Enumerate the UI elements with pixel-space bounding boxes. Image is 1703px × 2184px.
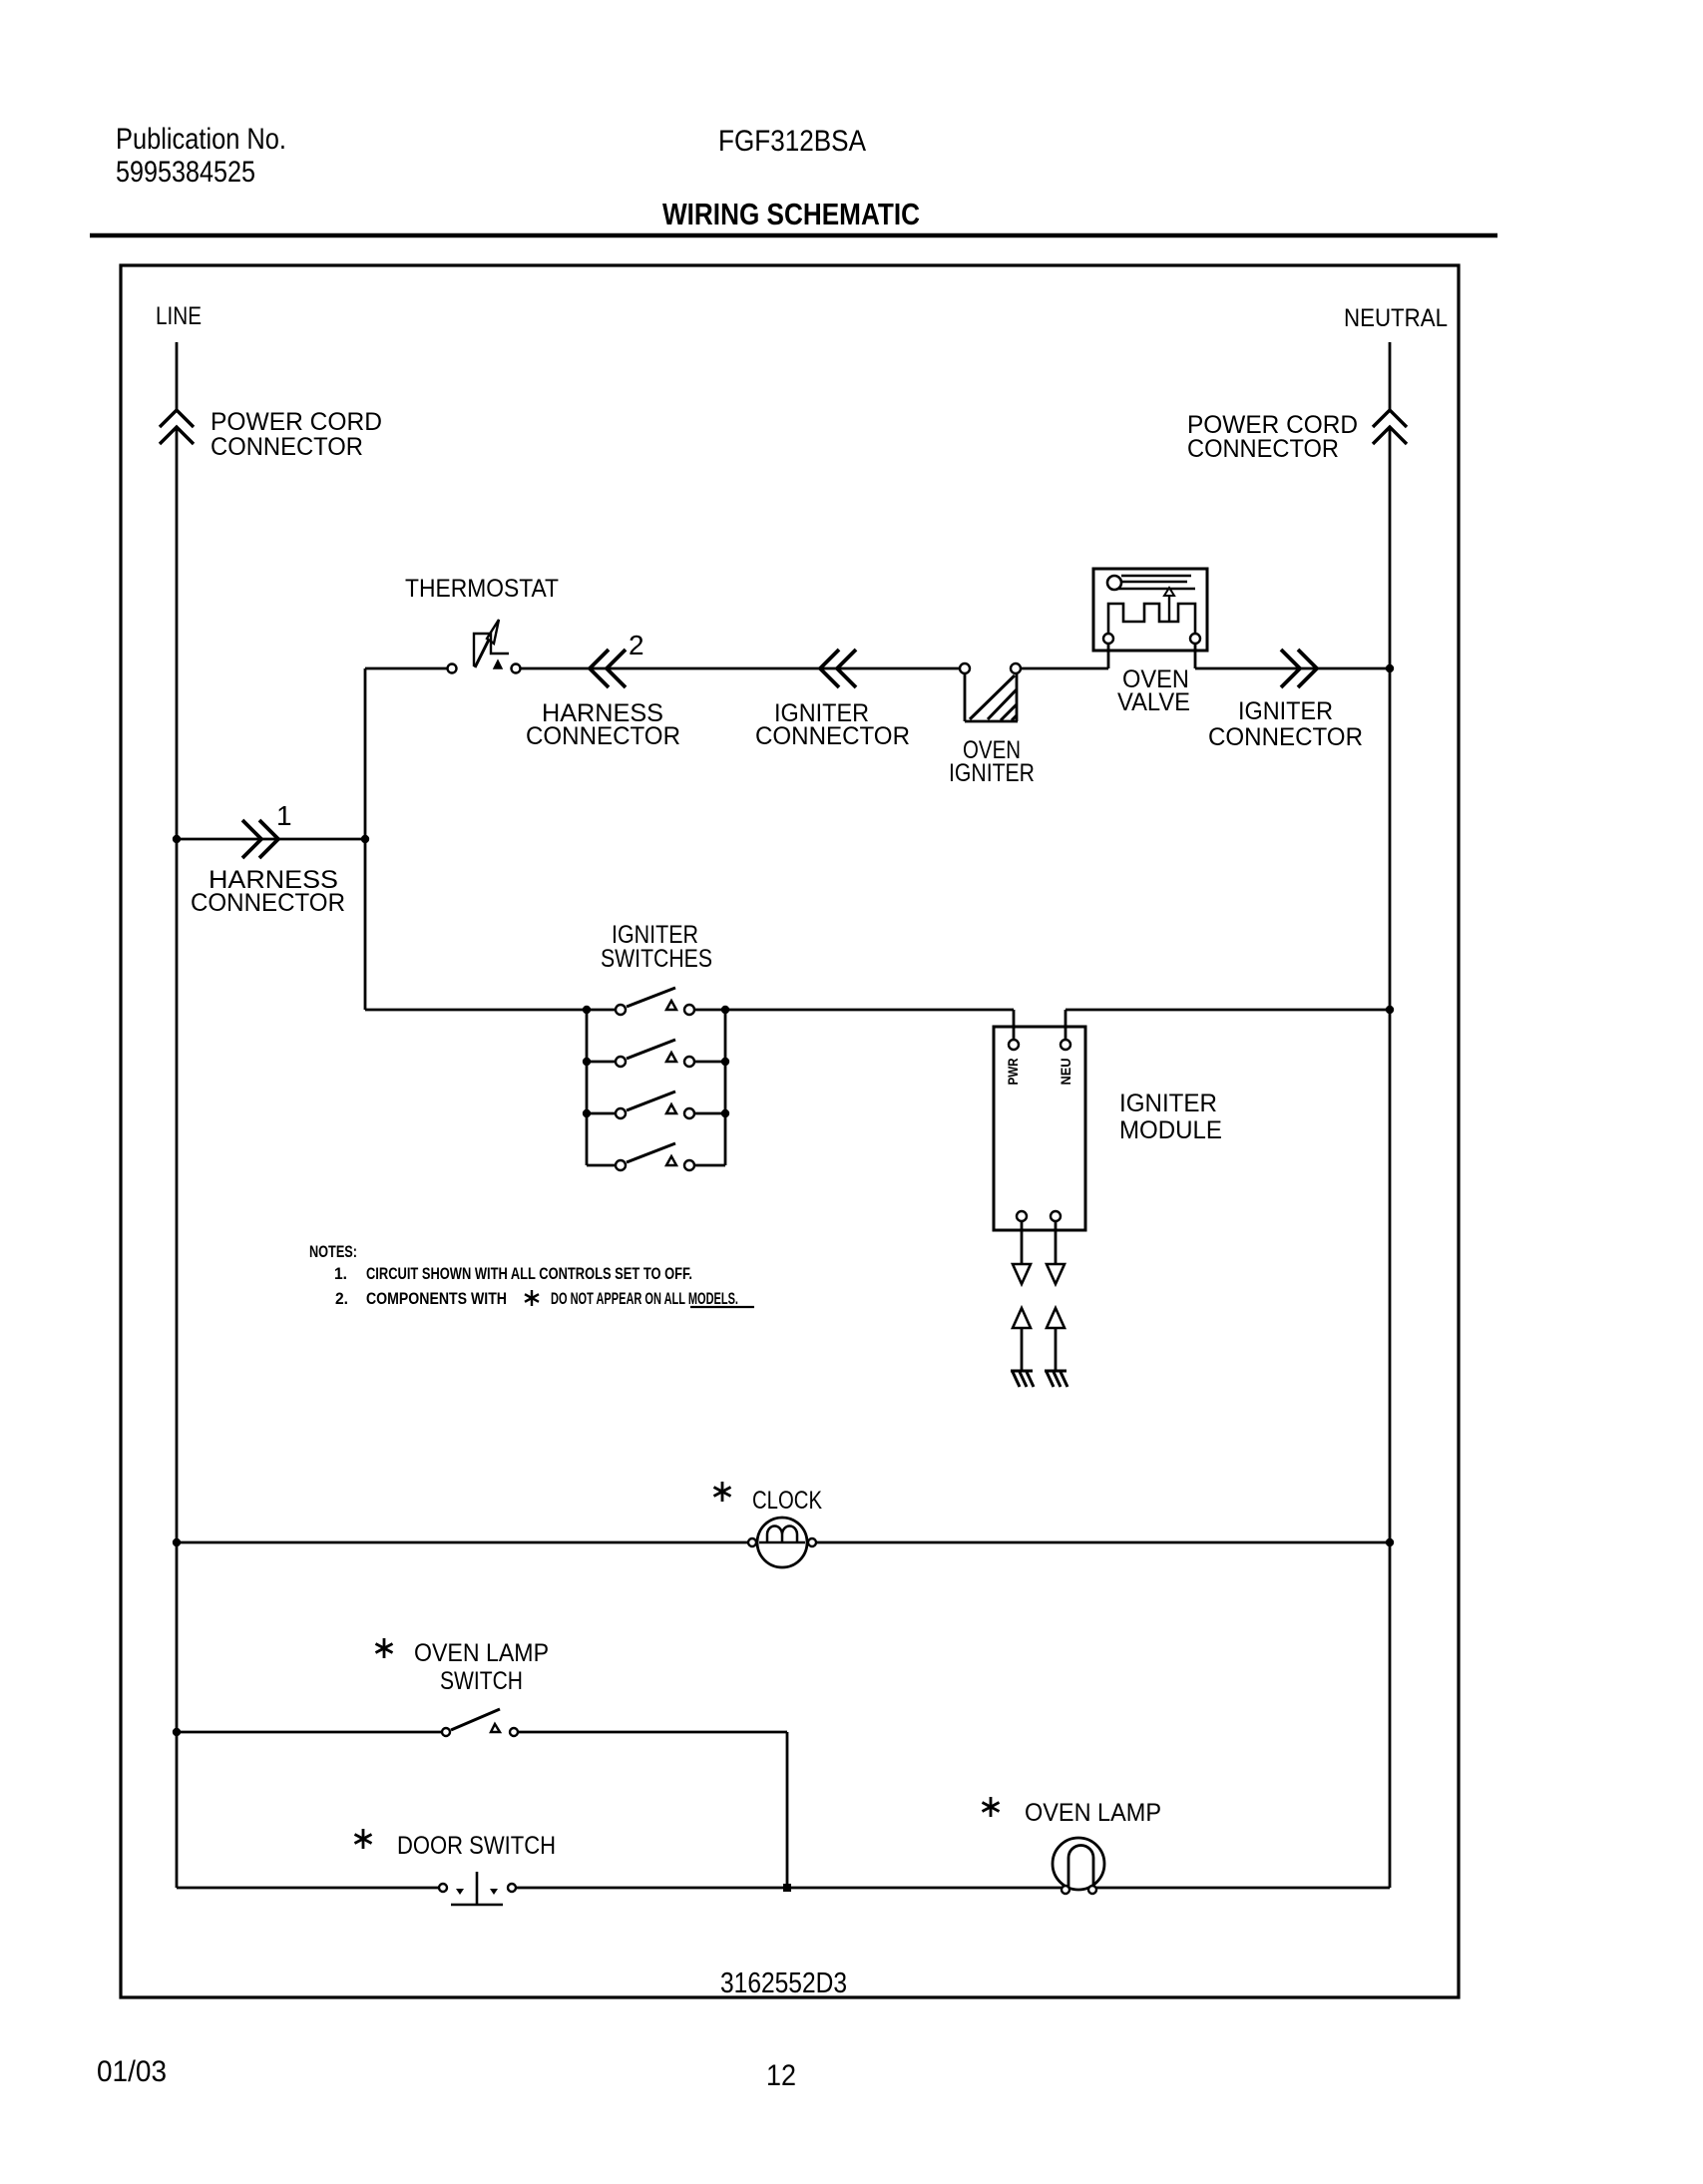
svg-text:CIRCUIT SHOWN WITH ALL CONTROL: CIRCUIT SHOWN WITH ALL CONTROLS SET TO O…: [366, 1264, 692, 1283]
junction square door row / lamp circuit: [783, 1884, 791, 1892]
svg-text:LINE: LINE: [156, 302, 202, 330]
svg-text:1.: 1.: [334, 1264, 347, 1283]
igniter switch 1: [587, 1009, 616, 1012]
thermostat switch: [448, 664, 457, 673]
svg-text:CLOCK: CLOCK: [752, 1487, 822, 1515]
svg-text:CONNECTOR: CONNECTOR: [191, 889, 345, 917]
igniter connector chevrons (right): [1281, 650, 1300, 687]
wire module NEU to neutral: [1064, 1010, 1067, 1040]
wire thermostat to oven igniter: [520, 667, 960, 670]
wire oven igniter to valve: [1021, 667, 1108, 670]
oven lamp asterisk: [983, 1797, 1000, 1817]
wire clock row right: [816, 1541, 1390, 1544]
svg-text:VALVE: VALVE: [1117, 688, 1190, 716]
svg-text:3162552D3: 3162552D3: [720, 1967, 847, 1999]
svg-text:CONNECTOR: CONNECTOR: [211, 433, 363, 461]
svg-text:NEU: NEU: [1058, 1059, 1073, 1086]
svg-text:WIRING SCHEMATIC: WIRING SCHEMATIC: [662, 197, 920, 231]
svg-text:2: 2: [629, 630, 644, 660]
burner ground electrodes: [1011, 1370, 1033, 1373]
junction dot line / lamp switch row: [173, 1728, 181, 1736]
junction dot module row / neutral: [1386, 1006, 1394, 1014]
svg-text:CONNECTOR: CONNECTOR: [1208, 723, 1363, 751]
oven lamp switch asterisk: [376, 1638, 393, 1658]
wire vertical from thermostat row to igniter switches: [364, 668, 367, 1010]
igniter module bottom terminals: [1017, 1211, 1027, 1221]
igniter connector chevrons (left): [820, 650, 839, 687]
harness connector 2 chevrons: [590, 650, 609, 687]
svg-text:FGF312BSA: FGF312BSA: [718, 125, 866, 158]
oven valve body: [1093, 569, 1207, 651]
svg-text:2.: 2.: [335, 1289, 348, 1308]
svg-text:5995384525: 5995384525: [116, 156, 255, 189]
clock asterisk: [714, 1482, 731, 1502]
svg-text:IGNITER: IGNITER: [949, 759, 1035, 787]
wire lamp switch row left: [177, 1731, 442, 1734]
oven valve leads: [1107, 644, 1110, 668]
svg-text:PWR: PWR: [1005, 1059, 1021, 1086]
oven valve terminals: [1103, 634, 1113, 644]
igniter module output leads: [1021, 1221, 1024, 1264]
oven valve capillary lines: [1121, 575, 1191, 577]
output arrows down: [1013, 1264, 1031, 1284]
junction dot clock row / neutral: [1386, 1538, 1394, 1546]
junction dots igniter switch rails: [583, 1006, 591, 1014]
wire clock row left: [177, 1541, 748, 1544]
svg-text:1: 1: [276, 800, 292, 831]
schematic border frame: [121, 265, 1459, 1997]
svg-text:NEUTRAL: NEUTRAL: [1344, 304, 1448, 332]
spark electrode arrows up: [1013, 1308, 1031, 1328]
svg-text:IGNITER: IGNITER: [1238, 697, 1333, 725]
svg-text:SWITCH: SWITCH: [440, 1667, 523, 1695]
junction dot line / harness1: [173, 835, 181, 843]
igniter module NEU terminal: [1061, 1040, 1070, 1050]
title rule: [90, 233, 1497, 238]
power cord connector (line side): [160, 410, 194, 427]
wire NEUTRAL vertical top: [1389, 342, 1392, 410]
igniter switch 2: [587, 1061, 616, 1064]
wire LINE vertical: [176, 427, 179, 1888]
igniter switches right rail: [724, 1010, 727, 1165]
svg-text:COMPONENTS WITH: COMPONENTS WITH: [366, 1289, 507, 1308]
oven igniter: [960, 663, 970, 673]
power cord connector (neutral side): [1373, 410, 1407, 427]
svg-text:01/03: 01/03: [97, 2055, 167, 2088]
door switch asterisk: [355, 1829, 372, 1849]
oven lamp switch: [442, 1728, 450, 1736]
harness connector 1 chevrons: [242, 820, 261, 858]
igniter switch 4: [587, 1164, 616, 1167]
oven valve probe: [1168, 595, 1170, 621]
svg-text:IGNITER: IGNITER: [1119, 1090, 1217, 1117]
svg-text:NOTES:: NOTES:: [309, 1242, 357, 1261]
wire valve to igniter connector right: [1195, 667, 1390, 670]
junction dot harness1 / vertical: [361, 835, 369, 843]
wire to igniter switches: [365, 1009, 587, 1012]
wire NEUTRAL vertical: [1389, 427, 1392, 1888]
wire harness connector 1: [177, 838, 365, 841]
svg-text:CONNECTOR: CONNECTOR: [526, 722, 680, 750]
svg-text:OVEN LAMP: OVEN LAMP: [1025, 1799, 1161, 1827]
svg-text:12: 12: [766, 2059, 796, 2092]
wire door switch row middle: [516, 1887, 1390, 1890]
igniter module body: [994, 1027, 1085, 1230]
oven valve coil: [1108, 604, 1195, 634]
svg-text:CONNECTOR: CONNECTOR: [1187, 435, 1339, 463]
svg-text:OVEN LAMP: OVEN LAMP: [414, 1639, 549, 1667]
wire LINE vertical top: [176, 342, 179, 410]
svg-text:POWER CORD: POWER CORD: [211, 408, 382, 436]
igniter module PWR terminal: [1009, 1040, 1019, 1050]
wire door switch row left: [177, 1887, 439, 1890]
oven valve thermostat bulb: [1107, 576, 1121, 590]
oven igniter hatch: [988, 689, 1017, 719]
wire lamp switch row right: [518, 1731, 787, 1734]
igniter switch 3: [587, 1112, 616, 1115]
oven lamp: [1053, 1838, 1104, 1890]
wire lamp circuit vertical: [786, 1732, 789, 1888]
igniter switches left rail: [586, 1010, 589, 1165]
svg-text:SWITCHES: SWITCHES: [601, 945, 712, 973]
svg-text:THERMOSTAT: THERMOSTAT: [405, 575, 559, 603]
svg-text:DO NOT APPEAR ON ALL MODELS.: DO NOT APPEAR ON ALL MODELS.: [551, 1289, 738, 1308]
junction dot top row / neutral: [1386, 664, 1394, 672]
door switch: [439, 1884, 447, 1892]
clock motor: [757, 1518, 807, 1567]
svg-text:Publication No.: Publication No.: [116, 123, 286, 156]
wire igniter switches to module PWR: [725, 1009, 1014, 1012]
svg-text:DOOR SWITCH: DOOR SWITCH: [397, 1832, 556, 1860]
wire thermostat left: [365, 667, 448, 670]
svg-text:CONNECTOR: CONNECTOR: [755, 722, 910, 750]
svg-text:MODULE: MODULE: [1119, 1116, 1222, 1144]
junction dot line / clock row: [173, 1538, 181, 1546]
